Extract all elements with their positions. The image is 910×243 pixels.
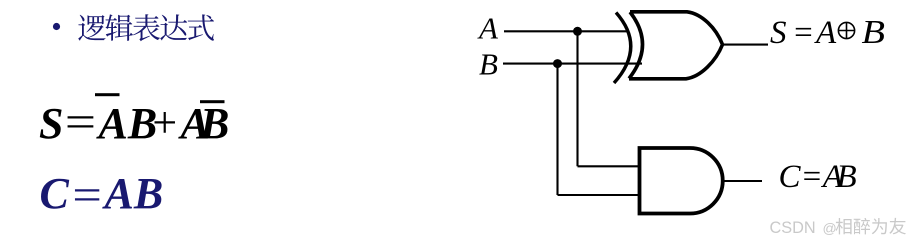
formula C = AB xyxy=(40,169,164,220)
svg-text:@: @ xyxy=(823,220,837,236)
svg-text:A: A xyxy=(814,15,837,51)
bullet point xyxy=(53,23,60,30)
overline over first A xyxy=(95,93,120,96)
svg-text:B: B xyxy=(862,13,885,50)
svg-text:S: S xyxy=(770,15,787,51)
XOR gate U1 body xyxy=(629,12,723,79)
wire B vertical drop xyxy=(556,64,558,195)
watermark 相醉为友 xyxy=(836,218,906,235)
wire A vertical drop xyxy=(576,31,578,166)
svg-text:CSDN: CSDN xyxy=(770,219,816,237)
output label S = A xor B xyxy=(770,13,885,51)
AND gate U2 body xyxy=(640,148,723,214)
XOR output wire xyxy=(723,44,769,46)
junction dot on wire A xyxy=(573,27,582,36)
AND output wire xyxy=(722,180,762,182)
svg-text:B: B xyxy=(199,99,229,148)
title 逻辑表达式 xyxy=(78,14,214,41)
overline over second B xyxy=(200,100,225,103)
svg-text:B: B xyxy=(479,47,498,82)
junction dot on wire B xyxy=(553,59,562,68)
svg-text:S: S xyxy=(39,99,63,148)
wire B horizontal xyxy=(503,63,642,65)
svg-text:=: = xyxy=(792,15,814,51)
svg-text:A: A xyxy=(477,11,499,46)
svg-text:AB: AB xyxy=(96,99,158,148)
formula S = AB + AB with overlines xyxy=(39,97,229,148)
svg-text:B: B xyxy=(837,159,857,195)
svg-text:=: = xyxy=(61,97,98,146)
svg-text:AB: AB xyxy=(102,169,164,218)
wire B to AND bottom input xyxy=(558,194,642,196)
XOR gate U1 input arc xyxy=(614,13,631,84)
svg-text:+: + xyxy=(150,98,180,147)
wire A to AND top input xyxy=(578,165,642,167)
svg-text:C: C xyxy=(40,169,70,218)
svg-text:=: = xyxy=(69,171,104,219)
xor symbol circle-plus xyxy=(838,22,854,38)
svg-text:C=A: C=A xyxy=(779,159,844,195)
wire A horizontal xyxy=(504,30,629,32)
